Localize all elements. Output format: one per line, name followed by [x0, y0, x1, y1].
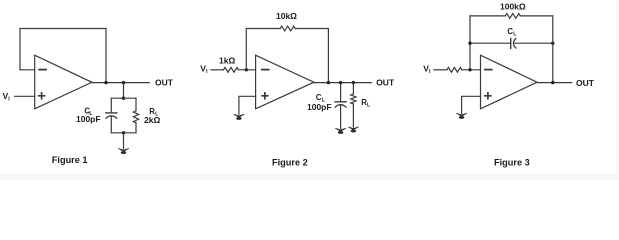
resistor R5 (100k feedback) [505, 13, 520, 18]
minus pin symbol [485, 69, 492, 71]
minus pin symbol [39, 69, 46, 71]
ground [118, 148, 129, 154]
wire feedback right vertical [552, 16, 554, 83]
svg-text:Figure 2: Figure 2 [272, 157, 308, 167]
resistor R2 (1k) [224, 67, 239, 72]
wire noninverting to ground [239, 96, 256, 114]
wire to inverting input [462, 69, 481, 71]
wire feedback top right [520, 15, 553, 17]
wire output [314, 82, 372, 84]
wire noninverting to ground [462, 96, 481, 113]
wire feedback left vertical [469, 16, 471, 70]
resistor R6 (input) [447, 67, 462, 72]
svg-text:OUT: OUT [576, 78, 595, 88]
plus pin symbol [262, 93, 268, 99]
node feedback-output junction [104, 81, 107, 84]
label VI fig1 [3, 91, 11, 102]
page bottom strip [0, 173, 619, 180]
label VI fig3 [423, 64, 431, 75]
node feedback junction [327, 81, 330, 84]
wire feedback right [295, 29, 328, 83]
node RL junction [352, 81, 355, 84]
label CL fig2 [316, 93, 326, 104]
capacitor C1 (CL 100pF) [106, 98, 117, 133]
svg-text:Figure 1: Figure 1 [52, 155, 88, 165]
wire to ground [123, 133, 125, 149]
wire cap branch right [515, 42, 553, 44]
wire output [92, 82, 149, 84]
svg-text:Figure 3: Figure 3 [494, 157, 530, 167]
svg-text:2kΩ: 2kΩ [144, 115, 160, 125]
wire to inverting input [239, 69, 256, 71]
wire VI input [434, 69, 447, 71]
wire inverting input [20, 69, 35, 71]
wire load network bottom [111, 132, 136, 134]
wire load branch [123, 83, 125, 99]
svg-text:100kΩ: 100kΩ [500, 1, 526, 11]
capacitor C3 (CL feedback) [511, 38, 516, 48]
wire feedback left [246, 29, 280, 70]
svg-text:1kΩ: 1kΩ [219, 56, 235, 66]
wire load network top [111, 97, 136, 99]
ground [348, 127, 359, 133]
node output junction [551, 81, 554, 84]
minus pin symbol [262, 69, 269, 71]
svg-text:100pF: 100pF [307, 102, 332, 112]
capacitor C2 (CL 100pF) [335, 83, 346, 129]
node load top junction [122, 97, 125, 100]
svg-text:OUT: OUT [155, 78, 174, 88]
plus pin symbol [39, 93, 45, 99]
ground [335, 128, 346, 134]
node cap left junction [468, 42, 471, 45]
page right strip [617, 0, 619, 180]
op-amp U3 [481, 55, 538, 109]
op-amp U2 [256, 55, 314, 109]
svg-text:10kΩ: 10kΩ [276, 11, 297, 21]
node cap right junction [551, 42, 554, 45]
svg-text:OUT: OUT [376, 78, 395, 88]
wire output [537, 82, 572, 84]
wire feedback top left [470, 15, 505, 17]
ground [234, 114, 245, 120]
feedback loop wire [20, 29, 106, 83]
wire VI input [211, 69, 224, 71]
resistor R4 (RL) [351, 83, 356, 127]
plus pin symbol [485, 93, 491, 99]
label RL fig1 [149, 107, 159, 118]
label RL fig2 [361, 98, 371, 109]
node inverting input junction [245, 68, 248, 71]
svg-text:100pF: 100pF [76, 114, 101, 124]
wire VI input [15, 95, 35, 97]
resistor R1 (RL 2k) [133, 98, 138, 133]
node inverting input junction [468, 68, 471, 71]
label VI fig2 [200, 64, 208, 75]
node load bottom junction [122, 131, 125, 134]
node load branch junction [122, 81, 125, 84]
node CL junction [339, 81, 342, 84]
resistor R3 (10k feedback) [280, 26, 295, 31]
label CL fig3 [507, 27, 517, 38]
label CL fig1 [84, 106, 93, 117]
wire cap branch left [470, 42, 510, 44]
op-amp U1 [35, 55, 92, 109]
ground [456, 113, 467, 119]
